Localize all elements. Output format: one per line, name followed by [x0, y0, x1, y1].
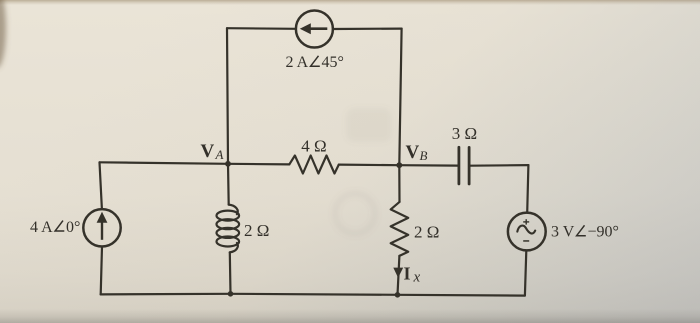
current source I1 circle (2A 45) [296, 11, 333, 48]
svg-text:B: B [420, 148, 428, 163]
svg-text:3 V: 3 V [551, 224, 575, 241]
inductor L1 loop 3 [217, 228, 240, 238]
inductor L1 loop 2 [217, 219, 240, 229]
svg-text:2 A: 2 A [286, 54, 309, 71]
current source I2 circle (4A 0) [83, 209, 120, 246]
node VB dot [396, 162, 402, 168]
current source I1 arrow (left pointing) [310, 27, 328, 30]
wire top-right vertical (down to VB) [399, 29, 401, 166]
capacitor C1 3ohm right plate [468, 147, 471, 184]
current source I2 arrow (up pointing) [101, 222, 103, 240]
capacitor C1 3ohm left plate [457, 147, 460, 184]
svg-text:x: x [413, 270, 421, 286]
wire R2 to bottom node with Ix [398, 256, 400, 295]
svg-text:45°: 45° [322, 54, 344, 71]
voltage source V1 sine wave [517, 226, 535, 234]
svg-text:I: I [404, 264, 411, 284]
resistor R2 2ohm zigzag vertical [391, 202, 409, 256]
svg-text:2 Ω: 2 Ω [244, 221, 269, 240]
inductor L1 exit hook [230, 243, 238, 252]
wire middle left horizontal [100, 162, 290, 164]
inductor L1 loop 4 [217, 237, 240, 247]
wire left branch lower [101, 247, 102, 295]
svg-text:4 A: 4 A [30, 219, 53, 236]
inductor L1 2ohm entry hook [229, 205, 238, 215]
svg-text:−90°: −90° [588, 224, 619, 241]
wire top-left vertical (VA up to top loop) [227, 28, 228, 164]
wire VA down to inductor [227, 164, 230, 205]
wire top horizontal left of source [227, 27, 296, 30]
wire left branch upper [100, 162, 102, 209]
svg-text:3 Ω: 3 Ω [452, 124, 477, 143]
svg-text:V: V [406, 142, 420, 163]
wire right branch upper [527, 165, 528, 213]
wire right branch lower [525, 251, 526, 296]
wire capacitor to right corner [470, 164, 528, 167]
wire middle between R1 and VB [339, 164, 400, 167]
node VA dot [225, 161, 231, 167]
voltage source plus sign [526, 219, 527, 224]
faint watermark smudge [346, 108, 392, 142]
node bottom-left dot [228, 291, 234, 297]
svg-text:V: V [201, 141, 215, 162]
wire VB to capacitor [399, 164, 457, 167]
wire top horizontal right of source [333, 28, 402, 31]
svg-text:A: A [215, 147, 224, 162]
voltage source minus sign [523, 240, 529, 242]
faint watermark ring [335, 194, 375, 234]
wire VB down to resistor R2 [398, 165, 400, 202]
svg-text:2 Ω: 2 Ω [414, 223, 439, 242]
resistor R1 4ohm zigzag [289, 156, 339, 174]
svg-text:4 Ω: 4 Ω [301, 137, 326, 156]
svg-text:0°: 0° [66, 219, 80, 236]
wire inductor to bottom [229, 252, 232, 293]
voltage source V1 circle (3V -90) [508, 213, 546, 251]
node bottom-right dot [395, 292, 401, 298]
Ix arrowhead (down) [393, 268, 403, 278]
inductor L1 loop 1 [217, 211, 240, 221]
wire bottom horizontal [101, 294, 525, 296]
